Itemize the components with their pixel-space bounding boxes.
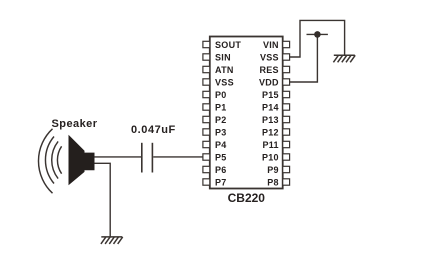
speaker sound-wave arcs [38,129,61,193]
svg-text:P1: P1 [215,103,227,113]
svg-text:P3: P3 [215,128,227,138]
svg-text:P9: P9 [267,165,279,175]
pin boxes right (VIN,VSS,RES,VDD,P15-P8) [283,41,290,185]
left pin labels [215,40,241,188]
wire supply stub through node [307,33,328,35]
svg-text:P15: P15 [262,90,279,100]
capacitor C1 0.047uF [142,143,153,173]
svg-text:P8: P8 [267,178,279,188]
svg-text:P4: P4 [215,140,227,150]
speaker SPK1 body [69,135,95,186]
wire capacitor to P5 pin [153,156,203,158]
pin boxes left (SOUT,SIN,ATN,VSS,P0-P7) [203,41,210,185]
svg-text:P0: P0 [215,90,227,100]
svg-text:Speaker: Speaker [52,118,98,130]
svg-text:P14: P14 [262,103,279,113]
svg-text:VDD: VDD [259,78,279,88]
wire speaker bottom terminal down to ground [94,163,110,237]
svg-text:P5: P5 [215,153,227,163]
IC U1 CB220 body [210,37,283,189]
svg-text:P13: P13 [262,115,279,125]
svg-text:0.047uF: 0.047uF [131,124,176,136]
svg-text:P10: P10 [262,153,279,163]
svg-text:SIN: SIN [215,53,231,63]
svg-text:P7: P7 [215,178,227,188]
right pin labels [259,40,279,188]
wire speaker top terminal to capacitor [94,156,141,158]
ground GND2 [333,55,355,62]
svg-text:CB220: CB220 [228,191,266,205]
ground GND1 [101,237,123,244]
svg-text:VIN: VIN [263,40,279,50]
node junction dot [314,31,321,38]
svg-text:P6: P6 [215,165,227,175]
wire VSS pin to top rail and down to ground [290,20,345,57]
svg-text:P11: P11 [262,140,278,150]
svg-text:P12: P12 [262,128,279,138]
wire VDD pin up to supply node [290,34,318,82]
svg-text:SOUT: SOUT [215,40,241,50]
svg-text:VSS: VSS [215,78,234,88]
svg-text:RES: RES [259,65,278,75]
svg-text:P2: P2 [215,115,227,125]
svg-text:ATN: ATN [215,65,234,75]
svg-text:VSS: VSS [260,53,279,63]
